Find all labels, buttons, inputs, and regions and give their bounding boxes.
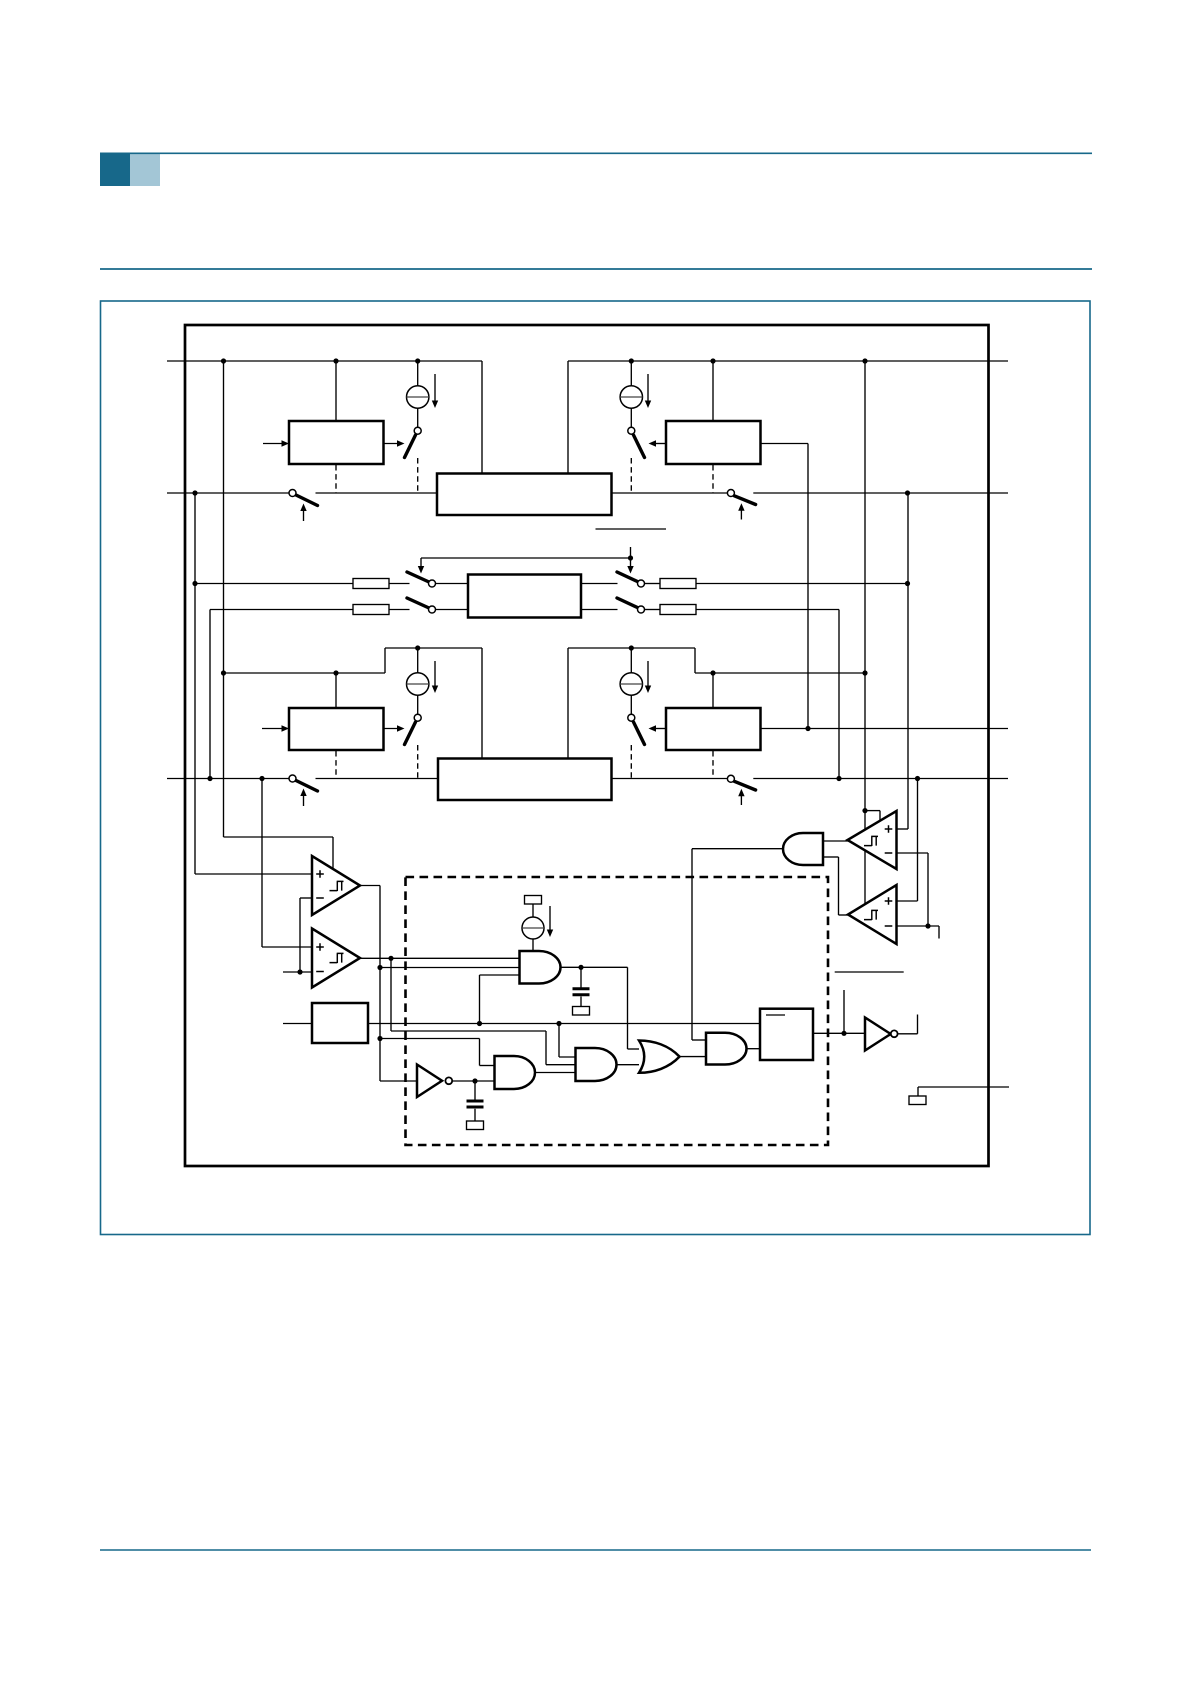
switch RTL right bbox=[617, 598, 639, 608]
wire OR output to AND3 bbox=[679, 1056, 706, 1058]
wake AND gate mirrored bbox=[783, 833, 823, 865]
comparator 1 plus bbox=[316, 870, 324, 878]
wire driver1 output bbox=[384, 443, 401, 445]
wire CANH drop x195 bbox=[194, 493, 196, 874]
wire RTH row right bbox=[581, 583, 618, 585]
wire lower feed right step down bbox=[694, 648, 696, 673]
label line near wake comparators bbox=[835, 971, 904, 973]
wire RTH row left bbox=[195, 583, 353, 585]
comparator 1 minus bbox=[316, 897, 324, 899]
wire CS3 tap bbox=[417, 648, 419, 714]
wire osc tap up to wake AND third input bbox=[479, 975, 481, 1024]
switch S3 driver3 bbox=[405, 722, 416, 745]
oscillator box bbox=[312, 1003, 368, 1043]
wire comparator1 branch to AND1 top input bbox=[380, 1038, 480, 1040]
wire wake comparator1 supply step bbox=[865, 810, 880, 812]
wire driver2 output to CANL tie bbox=[761, 443, 809, 445]
wire CANH bus right outer bbox=[753, 492, 1008, 494]
wake comparator 1 bbox=[848, 811, 897, 869]
wire left column elbow to comparator 1 plus bbox=[224, 836, 334, 838]
wire AND3 output to flip-flop bbox=[746, 1048, 760, 1050]
capacitor NOT timer bbox=[467, 1101, 484, 1107]
wire lower feed left at y673 bbox=[224, 672, 386, 674]
wire driver4 input bbox=[653, 728, 666, 730]
wire AND1 output bbox=[535, 1072, 576, 1074]
timer dashed box bbox=[406, 877, 829, 1145]
wake comparator 1 hysteresis bbox=[864, 836, 878, 846]
wire dashed driver4 box drop bbox=[712, 751, 714, 779]
wire driver1 input bbox=[263, 443, 285, 445]
driver4 box bbox=[666, 708, 761, 750]
wire flip-flop output to inverter bbox=[813, 1032, 865, 1034]
switch S2 driver2 bbox=[634, 435, 645, 458]
switch RTH right bbox=[617, 572, 639, 582]
wire lower feed drop to filter box left bbox=[481, 648, 483, 761]
AND1 gate bbox=[495, 1056, 536, 1089]
header rule top bbox=[130, 152, 1092, 154]
current source CS3 bbox=[407, 672, 429, 696]
header light blue square bbox=[130, 153, 160, 187]
wire wake AND output feedback bbox=[692, 848, 784, 850]
wire dashed driver1 box drop bbox=[335, 465, 337, 493]
wire driver3 center drop bbox=[335, 673, 337, 708]
wire comparator2 output to wake AND input bbox=[360, 957, 520, 959]
NOT gate bbox=[417, 1065, 442, 1098]
arrow RTH feedback right bbox=[627, 566, 633, 574]
wake comparator 1 plus bbox=[885, 825, 893, 833]
output inverter bbox=[865, 1018, 891, 1051]
wire lower feed elevated right bbox=[568, 647, 695, 649]
wire CANH bus right bbox=[316, 492, 728, 494]
wire lower feed elevated left bbox=[385, 647, 482, 649]
wire driver4 center drop bbox=[712, 673, 714, 708]
AND3 gate bbox=[706, 1033, 747, 1065]
wire CANH elbow to comparator 1 bbox=[195, 873, 312, 875]
current source CS4 arrow bbox=[647, 661, 649, 686]
wire wake comparator2 output bbox=[823, 856, 839, 858]
wire comparator1 output down x380 bbox=[360, 885, 380, 887]
wire RTL row left bbox=[209, 610, 211, 779]
wire oscillator output line bbox=[368, 1023, 760, 1025]
resistor RTH left bbox=[353, 579, 389, 589]
AND2 gate bbox=[576, 1048, 617, 1081]
arrow driver4 input bbox=[649, 725, 657, 731]
wake comparator 2 hysteresis bbox=[864, 910, 878, 920]
wire comparator2 branch down x391 bbox=[390, 958, 392, 1031]
wire inverter output RXD stub bbox=[897, 1033, 917, 1035]
wire wake comparator1 plus to x908 bbox=[897, 828, 909, 830]
wake current source arrow bbox=[549, 906, 551, 930]
wire dashed driver2 switch drop bbox=[630, 458, 632, 493]
arrow driver2 input bbox=[649, 440, 657, 446]
capacitor wake timer bbox=[573, 989, 590, 995]
wire VBAT bus left drop to thermal box bbox=[481, 361, 483, 476]
current source CS1 bbox=[407, 385, 429, 409]
label line under thermal box bbox=[596, 528, 667, 530]
wire driver1 center drop bbox=[335, 361, 337, 421]
wire VBAT bus right segment bbox=[568, 360, 1008, 362]
driver3 box bbox=[289, 708, 384, 750]
switch CANH bus arrow bbox=[303, 510, 305, 521]
wire wake comparator2 minus line bbox=[897, 925, 940, 927]
resistor RTH right bbox=[660, 579, 696, 589]
arrow driver3 input bbox=[282, 725, 290, 731]
wire dashed driver3 switch drop bbox=[417, 745, 419, 779]
comparator 2 plus bbox=[316, 943, 324, 951]
wake comparator 2 bbox=[848, 885, 897, 944]
wire NOT gate input bbox=[380, 1080, 417, 1082]
wire CANL drop x262 to comparator 2 bbox=[261, 779, 263, 948]
arrow driver1 output bbox=[397, 440, 405, 446]
resistor RTL right bbox=[660, 605, 696, 615]
wire driver3 output bbox=[384, 728, 401, 730]
current source CS2 bbox=[620, 385, 642, 409]
wire CANL bus left bbox=[167, 778, 289, 780]
switch RTL left bbox=[407, 598, 429, 608]
arrow driver1 input bbox=[282, 440, 290, 446]
ground pad wake timer bbox=[573, 1007, 590, 1016]
wire CANH bus left bbox=[167, 492, 289, 494]
wire CS2 tap bbox=[630, 361, 632, 427]
wire CANL bus right inner bbox=[612, 778, 728, 780]
wire wake AND gate output down to OR input bbox=[560, 966, 628, 968]
wire driver2 center drop bbox=[712, 361, 714, 421]
wire driver4 output to CANL pin bbox=[761, 728, 1009, 730]
comparator 2 minus bbox=[316, 971, 324, 973]
wire driver3 input bbox=[262, 728, 285, 730]
thermal protection box top bbox=[437, 474, 612, 516]
wire CANL bus right outer bbox=[753, 778, 1008, 780]
current source CS2 arrow bbox=[647, 374, 649, 401]
wire osc tap down to AND2 top input bbox=[558, 1024, 560, 1058]
wake current source bbox=[522, 916, 544, 940]
wire wake comparator1 minus tie bbox=[897, 852, 929, 854]
wire comparator2 minus stub bbox=[283, 971, 312, 973]
wire left column from VBAT bus down bbox=[223, 361, 225, 837]
wake-filter AND gate bbox=[520, 951, 561, 984]
OR gate bbox=[639, 1041, 680, 1073]
filter box lower bbox=[438, 759, 612, 801]
wire CANL bus mid bbox=[316, 778, 439, 780]
wake comparator 2 minus bbox=[885, 925, 893, 927]
comparator 1 hysteresis bbox=[330, 881, 344, 891]
chip outline box bbox=[185, 325, 989, 1166]
current source CS1 arrow bbox=[434, 374, 436, 401]
header rule 2 bbox=[100, 268, 1092, 270]
termination control box bbox=[468, 575, 581, 618]
current source CS4 bbox=[620, 672, 642, 696]
wire oscillator input stub bbox=[283, 1023, 312, 1025]
driver1 box bbox=[289, 421, 384, 464]
wire NOT gate output to AND1 bbox=[452, 1080, 494, 1082]
wire dashed driver3 box drop bbox=[335, 751, 337, 779]
wire CS4 tap bbox=[630, 648, 632, 714]
wire ERR pin line bbox=[918, 1086, 1009, 1088]
wire NOT cap lead bbox=[474, 1081, 476, 1100]
switch RTH left bbox=[407, 572, 429, 582]
switch CANL bus right arrow bbox=[740, 795, 742, 806]
switch CANH bus right bbox=[734, 496, 755, 505]
wire AND2 output bbox=[616, 1064, 639, 1066]
wire driver2 input bbox=[653, 443, 666, 445]
wire RTL row right bbox=[581, 609, 618, 611]
wire dashed driver2 box drop bbox=[712, 465, 714, 493]
comparator 2 hysteresis bbox=[330, 953, 344, 963]
wire VBAT bus left segment bbox=[167, 360, 482, 362]
ground pad NOT timer bbox=[467, 1121, 484, 1130]
wire RTH feedback line bbox=[421, 557, 631, 559]
wire flip-flop output stub up bbox=[843, 990, 845, 1033]
current source CS3 arrow bbox=[434, 661, 436, 686]
wake comparator 2 plus bbox=[885, 897, 893, 905]
switch CANL bus right bbox=[734, 781, 755, 790]
wire CS1 tap bbox=[417, 361, 419, 427]
ERR pin pad bbox=[909, 1096, 926, 1105]
resistor RTL left bbox=[353, 605, 389, 615]
arrow RTH feedback left bbox=[418, 566, 424, 574]
switch CANH bus right arrow bbox=[740, 509, 742, 520]
switch S4 driver4 bbox=[634, 722, 645, 745]
flip-flop box bbox=[760, 1009, 813, 1060]
label line in flip-flop bbox=[766, 1014, 785, 1016]
wire VBAT bus right drop to thermal box bbox=[567, 361, 569, 476]
header dark teal square bbox=[100, 153, 130, 187]
driver2 box bbox=[666, 421, 761, 464]
wake current source pad bbox=[525, 896, 542, 905]
wire comparator1 branch to wake AND input bbox=[380, 967, 520, 969]
comparator 1 bbox=[312, 856, 360, 915]
switch CANL bus arrow bbox=[303, 795, 305, 806]
figure frame bbox=[101, 301, 1091, 1235]
wire dashed driver4 switch drop bbox=[630, 745, 632, 779]
wire wake current source leads bbox=[532, 904, 534, 918]
wire wake comparator1 output bbox=[823, 840, 849, 842]
wire dashed driver1 switch drop bbox=[417, 458, 419, 493]
footer rule bbox=[100, 1549, 1091, 1551]
wire wake cap lead bbox=[580, 967, 582, 988]
arrow driver3 output bbox=[397, 725, 405, 731]
wire right column CANH drop x908 bbox=[907, 493, 909, 829]
wire right column VBAT drop x865 bbox=[864, 361, 866, 904]
switch CANH bus bbox=[296, 495, 318, 506]
switch CANL bus bbox=[296, 781, 318, 792]
wire comparator1 minus step bbox=[300, 897, 312, 899]
switch S1 driver1 bbox=[405, 435, 416, 458]
wire CANL drop x917 to wake comparator 2 plus bbox=[917, 779, 919, 902]
wake comparator 1 minus bbox=[885, 852, 893, 854]
comparator 2 bbox=[312, 929, 360, 988]
